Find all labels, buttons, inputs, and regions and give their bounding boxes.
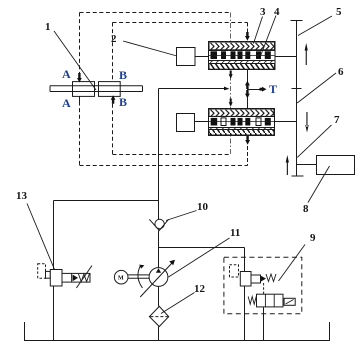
motor M circle	[114, 270, 128, 284]
filled arrows	[77, 32, 309, 273]
arrow down into upper block top (x247)	[245, 32, 250, 41]
clutch 1: right half box	[99, 82, 121, 97]
box (solenoid block lower)	[177, 114, 195, 132]
leader line 5	[298, 16, 332, 36]
motor-pump shaft	[128, 275, 149, 278]
valve group 9 dashed enclosure	[224, 257, 302, 314]
wire: upper block right to main vertical line	[275, 56, 297, 58]
leader line 9	[279, 245, 306, 282]
clutch 1: left half box	[73, 82, 95, 97]
distributor block 3/4 (upper)	[209, 42, 276, 70]
svg-text:10: 10	[197, 201, 209, 213]
svg-text:B: B	[119, 68, 127, 82]
leader line 13	[27, 204, 55, 270]
pump 11 circle	[149, 268, 168, 287]
leader line 4	[261, 16, 277, 57]
sequence valve (upper of 9)	[230, 265, 277, 294]
leader line 7	[297, 125, 331, 157]
svg-text:3: 3	[260, 6, 266, 18]
svg-text:9: 9	[310, 232, 316, 244]
wire: centre axis dash-dot line through valve blocks	[230, 13, 232, 155]
leader line 3	[254, 17, 263, 44]
svg-text:8: 8	[303, 203, 309, 215]
wire: pump to filter	[158, 286, 160, 306]
svg-text:A: A	[62, 96, 71, 110]
arrow up on x247 above T junction	[245, 81, 250, 89]
wire: filter to tank	[158, 327, 160, 341]
svg-text:7: 7	[334, 114, 340, 126]
rotation arc arrow	[138, 266, 143, 289]
wire: inner pilot dashed loop bottom edge	[113, 154, 231, 156]
box 8 (dashpot)	[317, 156, 355, 175]
leader line 12	[161, 293, 195, 314]
wire: connector to box 8	[297, 164, 317, 166]
wire: lower block right to main vertical line	[275, 121, 297, 123]
arrow into clutch A top	[77, 73, 82, 83]
svg-text:2: 2	[111, 33, 117, 45]
svg-text:11: 11	[230, 227, 240, 239]
wire: outer pilot dashed loop bottom edge	[80, 165, 248, 167]
check valve 10	[155, 219, 164, 228]
arrow right at end of return line	[224, 87, 230, 91]
wire: return line to T junction	[159, 88, 225, 90]
arrow down on x247 below T junction	[245, 90, 250, 98]
arrow right at T branch	[260, 87, 267, 92]
arrow down on axis below upper block	[229, 71, 233, 79]
svg-text:A: A	[62, 67, 71, 81]
tick middle	[292, 88, 302, 90]
T branch line	[248, 89, 260, 91]
wire: outer pilot dashed loop top edge	[80, 12, 231, 14]
relief valve (lower of 9)	[248, 294, 295, 340]
box 2 (solenoid block upper)	[177, 48, 196, 66]
leader line 2	[123, 41, 177, 56]
pump variable arrow	[140, 261, 174, 297]
wire: pump outlet horizontal to valve group 9	[159, 247, 245, 249]
pump variable arrow head	[169, 260, 175, 265]
arrow down beside line (item 6)	[305, 112, 308, 133]
wire: lower box to lower block	[195, 121, 209, 123]
wire: vertical drop to check valve	[158, 89, 160, 220]
leader line 6	[297, 73, 336, 103]
tick top	[291, 20, 303, 22]
leader line 8	[308, 166, 330, 203]
tick bottom	[292, 175, 304, 177]
leader line 11	[169, 238, 230, 277]
arrow up beside line (item 5)	[305, 43, 308, 65]
relief valve 13	[38, 264, 92, 288]
svg-text:T: T	[269, 82, 277, 96]
svg-text:5: 5	[336, 6, 342, 18]
arrow down below lower block (x247)	[245, 136, 250, 145]
arrow up beside box 8	[286, 155, 289, 175]
distributor block (lower)	[209, 109, 275, 136]
svg-text:1: 1	[45, 21, 51, 33]
wire: check valve to pump	[158, 231, 160, 268]
wire: pilot line below lower block	[247, 146, 249, 166]
wire: inner pilot dashed loop top edge	[113, 22, 248, 24]
leader line 1	[54, 31, 96, 90]
arrow down on axis above lower block	[229, 99, 233, 107]
svg-text:12: 12	[194, 283, 206, 295]
stroke indicator line 5/6/7: main vertical	[296, 21, 298, 177]
svg-text:13: 13	[16, 190, 28, 202]
wire: solid line between blocks (right)	[247, 70, 249, 109]
pump output triangle	[156, 268, 161, 273]
wire: left branch vertical through relief valve 13	[53, 201, 55, 341]
rotation arc arrow head	[139, 265, 144, 269]
tank outline	[25, 322, 330, 341]
svg-text:4: 4	[274, 6, 280, 18]
wire: inner pilot dashed loop left edge	[112, 23, 114, 82]
wire: valve group 9 drop line to tank	[244, 248, 246, 341]
leader line 10	[166, 211, 197, 221]
filter 12 diamond	[149, 306, 168, 326]
wire: outer pilot dashed loop left edge	[79, 13, 81, 74]
svg-text:B: B	[119, 95, 127, 109]
clutch 1: shaft bar lines through boxes	[50, 86, 143, 92]
wire: pilot line to top of upper block	[247, 23, 249, 30]
wire: box2 to upper block	[195, 56, 209, 58]
wire: left branch horizontal	[54, 200, 159, 202]
svg-text:6: 6	[338, 66, 344, 78]
svg-text:M: M	[118, 276, 124, 282]
arrow into clutch B bottom	[111, 95, 116, 104]
